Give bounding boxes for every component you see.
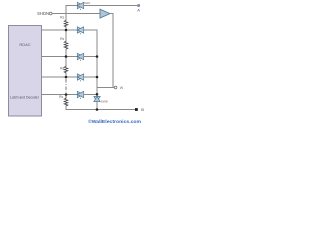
switch SW3 bbox=[77, 74, 83, 82]
block U1 RDAC Latch and Decoder bbox=[9, 26, 42, 117]
switch SW4 bbox=[77, 91, 83, 99]
svg-text:SWA: SWA bbox=[84, 1, 91, 5]
label A bbox=[137, 7, 140, 12]
bus junction dot row4 bbox=[96, 93, 99, 96]
label SHDN bbox=[37, 11, 49, 16]
svg-text:SWB: SWB bbox=[101, 99, 108, 103]
label SWA bbox=[84, 1, 91, 5]
svg-text:RDAC: RDAC bbox=[19, 42, 30, 47]
node junction dot node2 bbox=[65, 55, 68, 58]
svg-text:SHDN: SHDN bbox=[37, 11, 49, 16]
svg-text:RS: RS bbox=[59, 95, 63, 99]
wire decoder row2 bbox=[42, 56, 77, 58]
wire decoder row3 bbox=[42, 76, 77, 78]
wire decoder row1 bbox=[42, 29, 77, 31]
switch SWB vertical bbox=[94, 96, 100, 101]
switch SWA bbox=[77, 2, 83, 10]
svg-text:Latch and Decoder: Latch and Decoder bbox=[10, 96, 40, 100]
wire string ellipsis dashed bbox=[65, 79, 67, 93]
wire wiper bus vertical bbox=[96, 30, 98, 97]
svg-text:RS: RS bbox=[60, 16, 64, 20]
label Latch and Decoder bbox=[10, 96, 40, 100]
wire SW4 to wiper bus bbox=[84, 94, 97, 96]
wire Rs2 to node2 bbox=[65, 50, 67, 66]
op-amp buffer U2 bbox=[100, 9, 110, 18]
resistor Rs3 bbox=[64, 66, 68, 74]
wire SWB to bottom rail bbox=[96, 102, 98, 110]
bus junction dot row3 bbox=[96, 76, 99, 79]
label W bbox=[120, 86, 124, 90]
svg-text:RS: RS bbox=[60, 37, 64, 41]
watermark WallElectronics.com bbox=[88, 118, 141, 125]
wire Rs1 to node1 bbox=[65, 28, 67, 41]
node junction dot node4 bbox=[65, 93, 68, 96]
node junction dot node1 bbox=[65, 29, 68, 32]
wire SW3 to wiper bus bbox=[84, 76, 97, 78]
label Rs3 bbox=[60, 66, 64, 70]
wire SW1 to wiper bus bbox=[84, 29, 98, 31]
label Rs1 bbox=[60, 16, 64, 20]
label Rs2 bbox=[60, 37, 64, 41]
wire Rs3 to node3 bbox=[65, 74, 67, 79]
label RDAC bbox=[19, 42, 30, 47]
label Rs4 bbox=[59, 95, 63, 99]
label B bbox=[141, 107, 144, 112]
terminal A bbox=[137, 4, 140, 7]
wire buffer output to W bbox=[111, 14, 114, 88]
switch SW2 bbox=[77, 53, 83, 61]
label SWB bbox=[101, 99, 108, 103]
svg-text:RS: RS bbox=[60, 66, 64, 70]
svg-text:W: W bbox=[120, 86, 124, 90]
svg-text:A: A bbox=[137, 7, 140, 12]
terminal B bbox=[135, 108, 138, 111]
bus junction dot row2 bbox=[96, 55, 99, 58]
terminal SHDN bbox=[49, 12, 52, 15]
node junction dot node3 bbox=[65, 76, 68, 79]
wire SWA to terminal A bbox=[84, 5, 138, 7]
wire wiper branch to terminal W bbox=[97, 87, 115, 89]
wire SHDN to buffer input bbox=[52, 13, 100, 15]
switch SW1 bbox=[77, 27, 83, 35]
resistor Rs2 bbox=[64, 41, 68, 50]
resistor Rs4 bbox=[64, 95, 68, 107]
svg-text:©WallElectronics.com: ©WallElectronics.com bbox=[88, 118, 141, 125]
bottom rail junction dot bbox=[96, 108, 99, 111]
terminal W bbox=[114, 86, 117, 89]
svg-text:B: B bbox=[141, 107, 144, 112]
wire Rs4 to bottom rail bbox=[66, 107, 136, 110]
wire string top corner to switch SWA bbox=[66, 6, 77, 20]
resistor Rs1 bbox=[64, 20, 68, 28]
wire decoder row4 bbox=[42, 94, 77, 96]
wire SW2 to wiper bus bbox=[84, 56, 97, 58]
